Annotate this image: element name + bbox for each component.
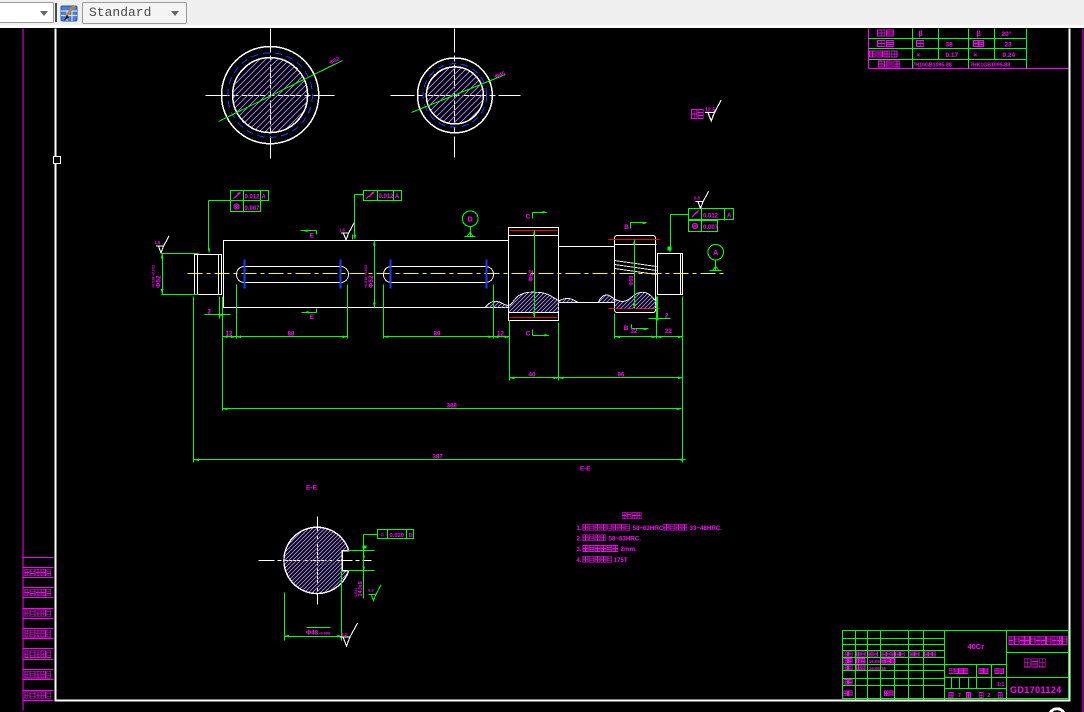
page left edge white	[55, 29, 57, 702]
toolbar separator	[55, 3, 57, 22]
circle1 outer	[222, 47, 319, 144]
svg-text:387: 387	[433, 453, 444, 460]
dim row2 40	[510, 377, 559, 379]
svg-text:0.012: 0.012	[245, 195, 261, 201]
spline red line bottom	[609, 308, 637, 310]
param table row3 text	[870, 51, 898, 57]
shaft body section	[224, 241, 509, 308]
tech notes title	[622, 512, 641, 519]
svg-text:Φ52: Φ52	[368, 275, 375, 288]
ladder table	[23, 557, 54, 559]
keyway section tick b2	[340, 260, 342, 289]
title block sig rows texts	[844, 659, 853, 664]
gear inner lines	[509, 235, 559, 237]
roughness above F3	[695, 191, 708, 208]
svg-text:7HK1GB1095-88: 7HK1GB1095-88	[970, 63, 1010, 69]
shaft journal1	[195, 255, 222, 295]
dim row1 12b	[494, 336, 510, 338]
svg-text:Φ58: Φ58	[629, 276, 635, 286]
grip square	[54, 157, 61, 164]
svg-text:16.05.15: 16.05.15	[869, 666, 887, 671]
svg-text:40: 40	[529, 371, 536, 378]
svg-text:89: 89	[434, 330, 441, 337]
toolbar style icon	[60, 4, 79, 23]
yellow centerline	[188, 273, 727, 275]
title block header row texts	[844, 652, 853, 657]
svg-text:Φ48: Φ48	[306, 630, 319, 637]
svg-text:β: β	[977, 31, 982, 38]
svg-text:-0.006: -0.006	[319, 631, 331, 636]
dim row2 96	[559, 377, 683, 379]
svg-text:=: =	[381, 533, 385, 539]
svg-text:E-E: E-E	[306, 485, 318, 492]
section mark C bottom	[532, 330, 534, 336]
EE tolerance frame	[378, 530, 414, 539]
svg-text:B: B	[624, 325, 629, 332]
circle1 inner	[233, 58, 308, 133]
dim body diameter	[374, 241, 376, 308]
toolbar	[0, 0, 1084, 26]
svg-text:7: 7	[958, 693, 961, 699]
svg-text:32: 32	[631, 328, 638, 335]
svg-text:12: 12	[497, 330, 504, 337]
svg-text:2.: 2.	[577, 537, 582, 543]
svg-text:0.8: 0.8	[694, 195, 700, 200]
svg-text:175T: 175T	[614, 557, 628, 564]
dim row1 32	[615, 336, 657, 338]
circle2 blue dashed	[423, 64, 487, 128]
tolerance frame F1 row2	[231, 201, 261, 212]
sheet count row	[949, 693, 953, 698]
svg-text:96: 96	[618, 371, 625, 378]
svg-text:0.021: 0.021	[354, 588, 358, 597]
dim row1 12	[223, 336, 237, 338]
svg-text:1.6: 1.6	[155, 240, 161, 245]
dim row1 22	[657, 336, 683, 338]
svg-text:β: β	[919, 31, 924, 38]
spline teeth diagonals	[615, 261, 657, 267]
frame magenta left	[23, 29, 24, 711]
dim row1 89	[384, 336, 494, 338]
keyway1	[237, 267, 349, 283]
param table row4 text	[879, 61, 901, 67]
svg-text:0.24: 0.24	[1003, 52, 1016, 59]
extension lines	[193, 297, 195, 463]
title block left grid	[843, 638, 945, 640]
dim gear diameter	[534, 231, 536, 318]
svg-text:A: A	[395, 194, 400, 200]
shaft section4	[559, 247, 615, 303]
keyway section tick b1	[244, 260, 246, 289]
svg-text:Φ62: Φ62	[529, 269, 535, 281]
dim row4 387	[194, 459, 686, 461]
svg-text:E: E	[310, 314, 315, 321]
param table green grid	[869, 38, 1027, 40]
svg-text:3.2: 3.2	[341, 632, 348, 637]
svg-text:388: 388	[447, 402, 458, 409]
circle2 green gauge line	[412, 75, 506, 113]
svg-text:E: E	[310, 233, 315, 240]
svg-text:Φ52: Φ52	[156, 275, 163, 288]
toolbar combobox 1	[0, 2, 54, 23]
datum D symbol	[462, 211, 478, 227]
EE centerline horizontal	[259, 560, 372, 562]
circle1 centerline horizontal	[206, 95, 335, 97]
toolbar standard combobox	[82, 2, 187, 24]
svg-text:A: A	[262, 195, 267, 201]
EE frame leader	[364, 534, 378, 536]
svg-text:B: B	[624, 224, 629, 231]
EE keyway slot extension lines	[343, 550, 363, 552]
circle1 green gauge line	[219, 61, 343, 122]
svg-text:D: D	[468, 217, 473, 224]
svg-text:D: D	[409, 533, 413, 539]
section mark B top	[630, 223, 632, 229]
spline inner line	[615, 244, 657, 246]
svg-text:6.3: 6.3	[368, 587, 374, 592]
dim row3 388	[223, 408, 682, 410]
svg-text:C: C	[526, 331, 531, 338]
svg-text:2mm.: 2mm.	[621, 546, 637, 553]
roughness on shaft mid	[341, 223, 354, 240]
spline red line top	[609, 239, 660, 241]
svg-text:1:1: 1:1	[997, 682, 1004, 688]
title block vertical main dividers	[944, 631, 946, 700]
F3 leader	[671, 214, 689, 216]
tolerance frame F3 row2	[689, 221, 718, 232]
section mark B bottom	[631, 325, 633, 329]
tolerance frame F3 row1	[689, 209, 734, 220]
keyway2	[384, 267, 494, 283]
svg-text:A: A	[713, 250, 718, 257]
section mark C top	[532, 213, 534, 219]
svg-text:3.: 3.	[577, 547, 582, 553]
svg-text:23: 23	[1005, 42, 1013, 49]
dim journal1 diameter	[162, 253, 199, 255]
tolerance frame F1 row1	[231, 191, 269, 201]
stage header texts	[949, 668, 968, 673]
chamfer dim left	[205, 314, 231, 316]
svg-text:+0.018 +0.002: +0.018 +0.002	[364, 265, 368, 288]
title block middle column	[945, 664, 1007, 666]
tolerance frame F2	[364, 191, 402, 201]
roughness rest symbol	[692, 110, 704, 119]
svg-text:20°: 20°	[1002, 30, 1012, 38]
svg-text:88: 88	[288, 330, 295, 337]
svg-text:22: 22	[665, 328, 672, 335]
param table row2 text	[878, 41, 894, 47]
EE bottom dim	[284, 593, 286, 641]
svg-text:0.007: 0.007	[703, 225, 719, 231]
school name	[1007, 652, 1069, 654]
shaft gear seat	[509, 228, 559, 321]
svg-text:1.: 1.	[577, 526, 582, 532]
dim spline diameter	[634, 240, 636, 309]
svg-text:0.007: 0.007	[245, 206, 261, 212]
chamfer dim right	[649, 318, 671, 320]
svg-text:GD1701124: GD1701124	[1010, 685, 1062, 695]
circle1 blue dashed	[228, 53, 313, 138]
svg-text:40Cr: 40Cr	[967, 642, 984, 651]
svg-text:2: 2	[987, 693, 990, 699]
keyway section tick b4	[486, 260, 488, 289]
roughness on journal1	[156, 236, 169, 253]
svg-text:C: C	[526, 214, 531, 221]
section mark E bottom	[302, 312, 317, 314]
param table row1 text	[878, 30, 894, 36]
circle2 inner	[426, 67, 483, 124]
datum A symbol	[708, 244, 724, 260]
circle2 outer	[418, 58, 493, 133]
gear red lines	[510, 230, 558, 232]
circle1 centerline vertical	[270, 29, 272, 159]
F1 leader	[209, 200, 231, 202]
svg-text:1.6: 1.6	[339, 227, 345, 232]
svg-text:4.: 4.	[577, 558, 582, 564]
svg-text:38: 38	[946, 42, 954, 49]
page right edge white	[1069, 29, 1071, 702]
param table magenta border	[868, 29, 870, 69]
svg-text:58~63HRC,: 58~63HRC,	[633, 525, 666, 532]
part name	[1024, 659, 1045, 667]
svg-text:33~48HRC.: 33~48HRC.	[690, 525, 723, 532]
svg-text:×: ×	[917, 52, 921, 59]
keyway section tick b3	[390, 260, 392, 289]
page bottom edge white	[55, 700, 1071, 702]
svg-text:14Js9: 14Js9	[358, 581, 364, 596]
F2 leader	[355, 194, 364, 196]
circle2 centerline vertical	[454, 29, 456, 158]
title block outer border	[843, 631, 1069, 699]
svg-text:E-E: E-E	[580, 466, 590, 473]
svg-text:7H10GB1095-88: 7H10GB1095-88	[913, 63, 952, 69]
svg-text:×: ×	[974, 52, 978, 59]
EE roughness white	[340, 623, 358, 646]
section mark E top	[301, 230, 317, 232]
shaft journal2	[658, 254, 683, 295]
shaft spline seat	[615, 236, 656, 313]
svg-text:0.17: 0.17	[946, 52, 959, 59]
EE centerline vertical	[317, 517, 319, 605]
svg-text:12: 12	[226, 330, 233, 337]
frame magenta right	[1083, 29, 1084, 712]
dim row1 88	[237, 336, 348, 338]
EE keyway width dim	[363, 547, 365, 599]
svg-text:0.020: 0.020	[390, 533, 405, 539]
circle2 centerline horizontal	[391, 95, 521, 97]
svg-text:0.012: 0.012	[703, 214, 719, 220]
svg-text:A: A	[727, 214, 732, 220]
svg-text:+0.018 +0.002: +0.018 +0.002	[152, 265, 156, 288]
partial white glyph bottom right	[1051, 709, 1064, 712]
EE roughness green	[369, 585, 381, 601]
svg-text:58~63HRC.: 58~63HRC.	[609, 536, 642, 543]
svg-text:0.012: 0.012	[379, 194, 395, 200]
